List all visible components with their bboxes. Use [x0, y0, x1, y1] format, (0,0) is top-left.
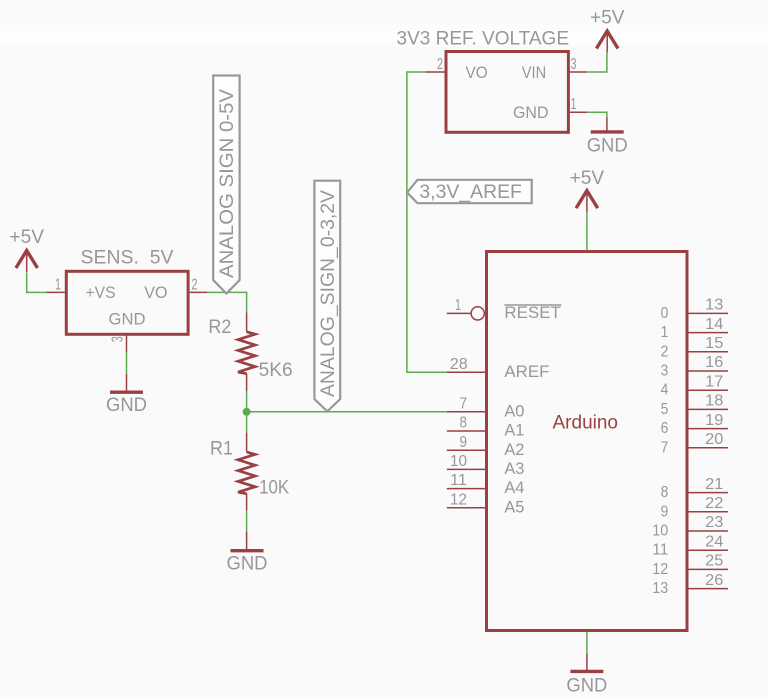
svg-text:28: 28 [450, 356, 468, 373]
svg-text:19: 19 [705, 412, 723, 429]
svg-text:25: 25 [705, 553, 723, 570]
svg-text:+5V: +5V [570, 168, 605, 189]
svg-text:1: 1 [571, 96, 577, 113]
svg-text:1: 1 [661, 324, 669, 341]
svg-text:A2: A2 [504, 440, 524, 459]
svg-text:10: 10 [450, 453, 467, 470]
svg-text:5K6: 5K6 [259, 360, 293, 381]
svg-text:9: 9 [460, 434, 468, 451]
svg-text:6: 6 [661, 420, 669, 437]
svg-text:10K: 10K [259, 477, 289, 498]
svg-text:VIN: VIN [522, 63, 546, 82]
svg-text:A5: A5 [504, 497, 524, 516]
svg-text:8: 8 [661, 484, 669, 501]
svg-text:GND: GND [109, 309, 146, 328]
svg-text:11: 11 [450, 472, 467, 489]
svg-text:9: 9 [661, 503, 669, 520]
svg-text:3: 3 [571, 56, 577, 73]
svg-text:A3: A3 [504, 459, 524, 478]
svg-text:7: 7 [661, 439, 669, 456]
svg-text:SENS. 5V: SENS. 5V [81, 248, 174, 269]
svg-text:2: 2 [437, 56, 443, 73]
svg-text:16: 16 [705, 354, 723, 371]
svg-text:10: 10 [652, 523, 668, 540]
svg-text:A0: A0 [504, 401, 524, 420]
svg-text:5: 5 [661, 401, 669, 418]
svg-text:R2: R2 [208, 317, 231, 338]
svg-text:3: 3 [661, 363, 669, 380]
svg-text:3,3V_AREF: 3,3V_AREF [419, 182, 522, 203]
svg-text:1: 1 [55, 276, 61, 293]
svg-text:2: 2 [192, 276, 198, 293]
svg-text:AREF: AREF [504, 362, 549, 381]
svg-text:+5V: +5V [590, 8, 625, 29]
svg-text:8: 8 [460, 415, 468, 432]
svg-text:14: 14 [705, 316, 723, 333]
svg-text:7: 7 [460, 395, 468, 412]
svg-text:3V3 REF. VOLTAGE: 3V3 REF. VOLTAGE [397, 29, 570, 50]
svg-text:11: 11 [652, 542, 668, 559]
svg-text:12: 12 [450, 491, 467, 508]
svg-text:+VS: +VS [86, 283, 116, 302]
svg-text:GND: GND [566, 676, 607, 697]
svg-text:0: 0 [661, 305, 669, 322]
svg-text:20: 20 [705, 431, 723, 448]
svg-text:21: 21 [705, 476, 723, 493]
svg-text:VO: VO [144, 283, 167, 302]
svg-text:R1: R1 [210, 438, 233, 459]
svg-text:Arduino: Arduino [553, 413, 619, 434]
svg-text:ANALOG_SIGN_0-3,2V: ANALOG_SIGN_0-3,2V [318, 190, 339, 397]
svg-text:VO: VO [466, 63, 488, 82]
svg-text:13: 13 [705, 297, 723, 314]
svg-text:13: 13 [652, 580, 668, 597]
svg-text:GND: GND [106, 395, 147, 416]
svg-text:18: 18 [705, 393, 723, 410]
svg-text:23: 23 [705, 514, 723, 531]
svg-text:ANALOG SIGN 0-5V: ANALOG SIGN 0-5V [217, 89, 238, 278]
svg-text:2: 2 [661, 343, 669, 360]
svg-text:24: 24 [705, 533, 723, 550]
svg-text:A1: A1 [504, 421, 524, 440]
svg-text:12: 12 [652, 561, 668, 578]
svg-text:GND: GND [587, 136, 628, 157]
svg-text:15: 15 [705, 335, 723, 352]
svg-text:GND: GND [513, 103, 549, 122]
svg-text:A4: A4 [504, 478, 524, 497]
svg-text:4: 4 [661, 382, 669, 399]
svg-text:22: 22 [705, 495, 723, 512]
svg-text:3: 3 [110, 336, 127, 342]
svg-text:17: 17 [705, 373, 723, 390]
svg-text:26: 26 [705, 572, 723, 589]
svg-text:+5V: +5V [9, 227, 44, 248]
svg-text:GND: GND [227, 554, 268, 575]
svg-text:1: 1 [455, 297, 461, 314]
